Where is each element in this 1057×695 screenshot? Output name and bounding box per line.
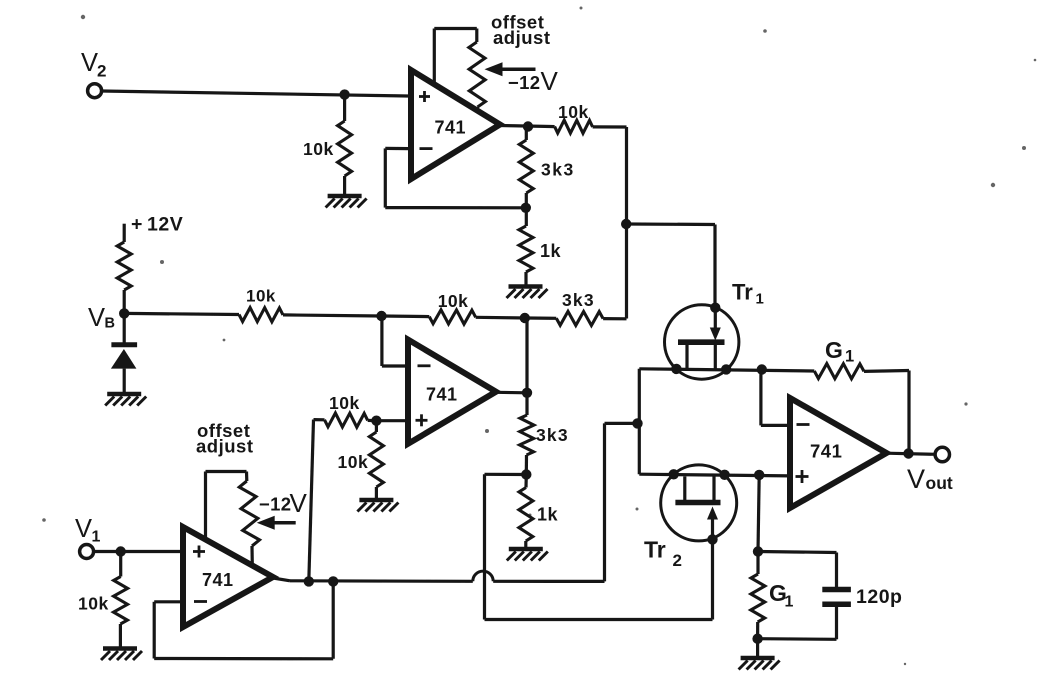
svg-text:−12: −12 [259, 494, 291, 515]
svg-text:741: 741 [810, 441, 842, 462]
svg-text:10k: 10k [78, 594, 109, 614]
svg-text:1: 1 [785, 594, 794, 611]
svg-text:Tr: Tr [644, 537, 666, 563]
svg-text:10k: 10k [558, 102, 589, 122]
svg-text:3k3: 3k3 [541, 160, 575, 180]
svg-text:10k: 10k [246, 287, 276, 306]
svg-text:1: 1 [92, 529, 101, 546]
svg-text:V: V [81, 49, 98, 77]
svg-text:V: V [88, 304, 105, 332]
svg-text:out: out [926, 473, 953, 493]
svg-text:2: 2 [97, 62, 107, 81]
svg-text:V: V [290, 488, 308, 518]
svg-text:V: V [75, 515, 92, 543]
svg-text:adjust: adjust [196, 436, 253, 457]
svg-text:−12: −12 [508, 72, 540, 93]
svg-text:V: V [541, 66, 559, 96]
svg-text:adjust: adjust [493, 27, 550, 48]
svg-text:10k: 10k [303, 139, 334, 159]
svg-text:12V: 12V [147, 214, 183, 236]
svg-text:+: + [131, 214, 142, 236]
svg-text:741: 741 [202, 570, 234, 590]
svg-text:10k: 10k [438, 291, 469, 311]
svg-text:741: 741 [426, 385, 458, 405]
svg-text:V: V [907, 464, 925, 494]
svg-text:10k: 10k [338, 452, 369, 472]
svg-text:120p: 120p [856, 586, 902, 608]
svg-text:2: 2 [673, 551, 683, 570]
svg-text:Tr: Tr [732, 280, 753, 305]
svg-text:1: 1 [845, 348, 855, 366]
svg-text:B: B [105, 316, 116, 332]
svg-text:3k3: 3k3 [562, 290, 595, 310]
svg-text:G: G [825, 337, 843, 363]
svg-text:10k: 10k [329, 393, 360, 413]
svg-text:1: 1 [756, 291, 765, 308]
svg-text:741: 741 [435, 118, 467, 138]
svg-text:1k: 1k [540, 241, 562, 261]
svg-text:3k3: 3k3 [536, 425, 569, 445]
svg-text:1k: 1k [537, 505, 559, 525]
